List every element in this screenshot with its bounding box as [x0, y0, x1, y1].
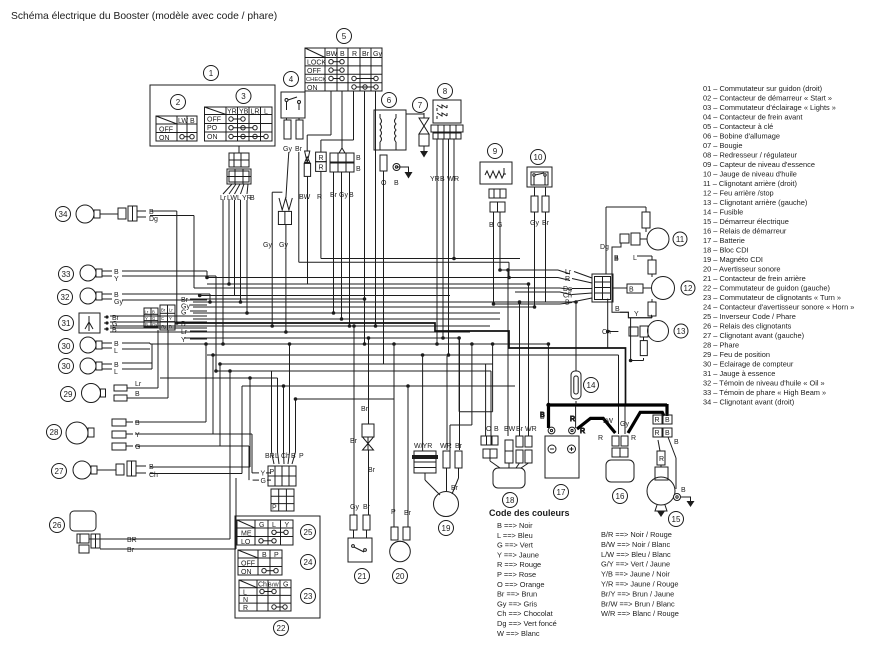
svg-text:R: R	[655, 430, 660, 437]
high beam indicator 33	[59, 265, 120, 283]
svg-text:Ch: Ch	[281, 453, 290, 460]
svg-text:Br: Br	[368, 467, 376, 474]
svg-text:30: 30	[62, 342, 71, 351]
key switch 4	[281, 72, 305, 154]
svg-text:Y: Y	[169, 316, 172, 321]
svg-text:B: B	[356, 166, 361, 173]
svg-text:ON: ON	[241, 569, 252, 576]
svg-text:OFF: OFF	[159, 127, 173, 134]
svg-text:R: R	[319, 165, 324, 172]
svg-text:34 – Clignotant avant (droit): 34 – Clignotant avant (droit)	[703, 398, 794, 407]
svg-text:B: B	[665, 417, 670, 424]
fuel sensor 9	[480, 144, 512, 230]
left switch unit box 22	[235, 516, 320, 636]
svg-text:31 – Jauge à essence: 31 – Jauge à essence	[703, 369, 775, 378]
svg-text:R: R	[454, 176, 459, 183]
svg-text:G: G	[283, 582, 288, 589]
svg-text:Y: Y	[285, 522, 290, 529]
svg-text:YR: YR	[227, 109, 237, 116]
resistor element (city light)	[263, 198, 292, 249]
svg-text:B: B	[615, 306, 620, 313]
svg-text:B: B	[145, 322, 148, 327]
svg-text:5: 5	[342, 32, 347, 41]
meter light 30b	[59, 358, 120, 376]
svg-text:33: 33	[62, 270, 71, 279]
svg-text:2: 2	[176, 98, 181, 107]
svg-text:CHECK: CHECK	[306, 77, 326, 83]
svg-text:B: B	[494, 426, 499, 433]
fuel gauge 31	[59, 313, 120, 334]
svg-text:Br: Br	[361, 406, 369, 413]
svg-text:P: P	[274, 552, 279, 559]
flasher relay 26	[50, 511, 137, 554]
svg-text:WR: WR	[525, 426, 537, 433]
svg-text:P ==> Rose: P ==> Rose	[497, 570, 536, 579]
svg-text:16 – Relais de démarreur: 16 – Relais de démarreur	[703, 227, 787, 236]
svg-text:B: B	[356, 155, 361, 162]
svg-text:R: R	[659, 456, 664, 463]
svg-text:08 – Redresseur / régulateur: 08 – Redresseur / régulateur	[703, 151, 798, 160]
svg-text:33 – Témoin de phare « High Be: 33 – Témoin de phare « High Beam »	[703, 388, 826, 397]
svg-text:G ==> Vert: G ==> Vert	[497, 541, 533, 550]
svg-text:21: 21	[358, 572, 367, 581]
svg-text:R: R	[317, 194, 322, 201]
meter light 30	[59, 337, 120, 355]
svg-text:23 – Commutateur de clignotant: 23 – Commutateur de clignotants « Turn »	[703, 293, 841, 302]
svg-text:B ==> Noir: B ==> Noir	[497, 521, 533, 530]
svg-text:L: L	[243, 589, 247, 596]
front turn signal 27	[52, 461, 159, 479]
svg-text:Gy ==> Gris: Gy ==> Gris	[497, 599, 537, 608]
svg-text:4: 4	[289, 75, 294, 84]
svg-text:LOCK: LOCK	[307, 60, 326, 67]
svg-text:BW: BW	[504, 426, 516, 433]
svg-text:Lr: Lr	[135, 381, 142, 388]
svg-text:15 – Démarreur électrique: 15 – Démarreur électrique	[703, 217, 789, 226]
svg-text:Gy: Gy	[530, 220, 539, 227]
svg-text:10: 10	[534, 153, 543, 162]
starter motor 15	[647, 415, 695, 527]
svg-text:28 – Phare: 28 – Phare	[703, 341, 739, 350]
svg-text:9: 9	[493, 147, 498, 156]
svg-text:Y: Y	[135, 432, 140, 439]
svg-text:Y/B ==> Jaune / Noir: Y/B ==> Jaune / Noir	[601, 570, 670, 579]
svg-text:LW: LW	[603, 418, 613, 425]
svg-text:B/W ==> Noir / Blanc: B/W ==> Noir / Blanc	[601, 540, 671, 549]
svg-text:26: 26	[53, 521, 62, 530]
svg-text:L: L	[114, 369, 118, 376]
svg-text:ON: ON	[207, 134, 218, 141]
svg-text:B: B	[629, 287, 634, 294]
svg-text:B: B	[440, 176, 445, 183]
svg-text:Y: Y	[634, 311, 639, 318]
svg-text:B: B	[665, 430, 670, 437]
svg-text:B: B	[681, 487, 686, 494]
svg-text:Br/Y ==> Brun / Jaune: Br/Y ==> Brun / Jaune	[601, 589, 674, 598]
svg-text:Lr: Lr	[181, 329, 188, 336]
svg-text:R: R	[598, 435, 603, 442]
B B connector (near coil)	[330, 153, 361, 199]
svg-text:Dg: Dg	[600, 244, 609, 251]
svg-text:OFF: OFF	[207, 117, 221, 124]
svg-text:Gy: Gy	[283, 146, 292, 153]
svg-text:B: B	[114, 362, 119, 369]
svg-text:B: B	[674, 439, 679, 446]
dimmer table 25	[237, 520, 316, 546]
svg-text:01 – Commutateur sur guidon (d: 01 – Commutateur sur guidon (droit)	[703, 84, 822, 93]
svg-text:LR: LR	[251, 109, 260, 116]
svg-text:B: B	[149, 464, 154, 471]
svg-text:Br: Br	[350, 438, 358, 445]
turn switch table 23	[239, 580, 316, 612]
svg-text:29: 29	[64, 390, 73, 399]
svg-text:N: N	[243, 597, 248, 604]
spark plug 7	[413, 98, 430, 158]
svg-text:BR: BR	[265, 453, 275, 460]
svg-text:29 – Feu de position: 29 – Feu de position	[703, 350, 770, 359]
svg-text:G: G	[181, 310, 186, 317]
svg-text:Br ==> Brun: Br ==> Brun	[497, 590, 537, 599]
svg-text:20 – Avertisseur sonore: 20 – Avertisseur sonore	[703, 265, 781, 274]
fuse 14	[571, 371, 599, 399]
svg-text:02 – Contacteur de démarreur «: 02 – Contacteur de démarreur « Start »	[703, 94, 832, 103]
svg-text:13: 13	[677, 327, 686, 336]
svg-text:YR: YR	[430, 176, 440, 183]
tail/stop light 12	[620, 255, 695, 318]
magneto 19	[412, 443, 463, 536]
svg-text:19 – Magnéto CDI: 19 – Magnéto CDI	[703, 255, 763, 264]
svg-text:Gy: Gy	[620, 421, 629, 428]
svg-text:Ch: Ch	[563, 293, 572, 300]
svg-text:14: 14	[587, 381, 596, 390]
svg-text:30 – Eclairage de compteur: 30 – Eclairage de compteur	[703, 360, 794, 369]
svg-text:03 – Commutateur d'éclairage «: 03 – Commutateur d'éclairage « Lights »	[703, 103, 836, 112]
svg-text:Br: Br	[516, 426, 524, 433]
svg-text:Ch: Ch	[258, 582, 267, 589]
svg-text:C: C	[161, 316, 164, 321]
svg-text:Lr: Lr	[169, 308, 173, 313]
svg-text:10 – Jauge de niveau d'huile: 10 – Jauge de niveau d'huile	[703, 170, 797, 179]
svg-text:24 – Contacteur d'avertisseur: 24 – Contacteur d'avertisseur sonore « H…	[703, 303, 854, 312]
svg-text:Gy: Gy	[152, 322, 158, 327]
svg-text:Br: Br	[362, 51, 370, 58]
svg-text:PO: PO	[207, 125, 218, 132]
svg-text:B: B	[614, 256, 619, 263]
svg-text:Gy: Gy	[350, 504, 359, 511]
svg-text:R: R	[243, 605, 248, 612]
svg-text:22 – Commutateur de guidon (ga: 22 – Commutateur de guidon (gauche)	[703, 284, 830, 293]
svg-text:G: G	[135, 444, 140, 451]
oil gauge 10	[527, 150, 552, 228]
svg-text:Y: Y	[114, 276, 119, 283]
svg-text:Ch: Ch	[602, 329, 611, 336]
CDI unit 18	[481, 426, 537, 508]
switch table 2 (front brake)	[156, 95, 197, 143]
rectifier 8	[430, 84, 463, 184]
svg-text:O: O	[381, 180, 387, 187]
svg-text:W ==> Blanc: W ==> Blanc	[497, 629, 540, 638]
title	[11, 11, 277, 22]
wire junction dots	[175, 257, 632, 401]
svg-text:Gy: Gy	[373, 51, 382, 58]
svg-text:B: B	[565, 300, 570, 307]
svg-text:W: W	[447, 176, 454, 183]
svg-text:ON: ON	[307, 85, 318, 92]
svg-text:B: B	[152, 310, 155, 315]
svg-text:17 – Batterie: 17 – Batterie	[703, 236, 745, 245]
svg-text:W/YR: W/YR	[414, 443, 432, 450]
legend list	[703, 84, 854, 407]
svg-text:L/W ==> Bleu / Blanc: L/W ==> Bleu / Blanc	[601, 550, 671, 559]
svg-text:R: R	[319, 155, 324, 162]
svg-text:B: B	[349, 192, 354, 199]
svg-text:25 – Inverseur Code / Phare: 25 – Inverseur Code / Phare	[703, 312, 796, 321]
svg-text:Lr: Lr	[220, 195, 227, 202]
svg-text:B: B	[394, 180, 399, 187]
svg-text:LO: LO	[241, 539, 251, 546]
svg-text:B: B	[135, 420, 140, 427]
svg-text:18: 18	[506, 496, 515, 505]
svg-text:Gy: Gy	[339, 192, 348, 199]
svg-text:07 – Bougie: 07 – Bougie	[703, 141, 742, 150]
svg-text:LW: LW	[227, 195, 237, 202]
svg-text:B: B	[190, 118, 195, 125]
svg-text:32: 32	[61, 293, 70, 302]
svg-text:G: G	[259, 522, 264, 529]
battery 17	[540, 414, 579, 500]
svg-text:25: 25	[304, 528, 313, 537]
svg-text:Y/R ==> Jaune / Rouge: Y/R ==> Jaune / Rouge	[601, 580, 678, 589]
svg-text:R: R	[655, 417, 660, 424]
starter relay 16	[598, 418, 636, 504]
svg-text:L: L	[633, 255, 637, 262]
svg-text:05 – Contacteur à clé: 05 – Contacteur à clé	[703, 122, 773, 131]
svg-text:19: 19	[442, 524, 451, 533]
meter connector block	[144, 297, 190, 344]
svg-text:11: 11	[676, 235, 685, 244]
svg-text:7: 7	[418, 101, 423, 110]
position light 29	[61, 330, 169, 403]
svg-text:B: B	[489, 222, 494, 229]
svg-text:Gy: Gy	[279, 242, 288, 249]
svg-text:R: R	[580, 428, 585, 435]
svg-text:OFF: OFF	[307, 68, 321, 75]
svg-text:14 – Fusible: 14 – Fusible	[703, 208, 743, 217]
svg-text:G: G	[261, 478, 266, 485]
svg-text:Code des couleurs: Code des couleurs	[489, 508, 570, 518]
svg-text:L ==> Bleu: L ==> Bleu	[497, 531, 533, 540]
switch unit box 1	[150, 66, 275, 147]
svg-text:ME: ME	[241, 531, 252, 538]
svg-text:B: B	[149, 209, 154, 216]
svg-text:Gy: Gy	[114, 299, 123, 306]
front turn signal 34	[56, 205, 159, 223]
svg-text:22: 22	[277, 624, 286, 633]
svg-text:06 – Bobine d'allumage: 06 – Bobine d'allumage	[703, 132, 780, 141]
svg-text:L: L	[272, 522, 276, 529]
svg-text:B: B	[112, 327, 117, 334]
svg-text:G: G	[152, 316, 155, 321]
svg-text:B/R ==> Noir / Rouge: B/R ==> Noir / Rouge	[601, 530, 672, 539]
svg-text:8: 8	[443, 87, 448, 96]
oil indicator 32	[58, 288, 124, 306]
svg-text:Br: Br	[363, 504, 371, 511]
svg-text:B: B	[540, 414, 545, 421]
wire diagonal feeds	[272, 148, 573, 464]
svg-text:B: B	[169, 324, 172, 329]
svg-text:Br: Br	[127, 547, 135, 554]
svg-text:B: B	[114, 341, 119, 348]
svg-text:LW: LW	[178, 118, 188, 125]
brake light diode unit	[350, 406, 376, 474]
rear turn signal 11	[600, 207, 687, 262]
svg-text:12: 12	[684, 284, 693, 293]
wire battery/relay links	[540, 401, 661, 467]
wire vertical drops	[150, 91, 644, 549]
svg-text:L: L	[275, 453, 279, 460]
svg-text:R: R	[565, 276, 570, 283]
horn 20	[390, 509, 412, 584]
svg-text:B: B	[114, 292, 119, 299]
svg-text:34: 34	[59, 210, 68, 219]
svg-text:30: 30	[62, 362, 71, 371]
svg-text:BW: BW	[326, 51, 338, 58]
rear turn signal 13	[602, 321, 688, 356]
svg-text:3: 3	[241, 92, 246, 101]
svg-text:17: 17	[557, 488, 566, 497]
svg-text:Y: Y	[181, 337, 186, 344]
svg-text:R: R	[631, 435, 636, 442]
svg-text:11 – Clignotant arrière (droit: 11 – Clignotant arrière (droit)	[703, 179, 797, 188]
svg-text:Br: Br	[161, 308, 166, 313]
svg-text:BR: BR	[127, 537, 137, 544]
svg-text:Y: Y	[261, 471, 266, 478]
svg-text:B: B	[135, 391, 140, 398]
svg-text:31: 31	[62, 319, 71, 328]
svg-text:W/R ==> Blanc / Rouge: W/R ==> Blanc / Rouge	[601, 609, 679, 618]
svg-text:Y ==> Jaune: Y ==> Jaune	[497, 550, 539, 559]
svg-text:09 – Capteur de niveau d'essen: 09 – Capteur de niveau d'essence	[703, 160, 815, 169]
headlight 28	[47, 419, 141, 451]
switch table 3 (lights)	[205, 89, 273, 142]
svg-text:12 – Feu arrière /stop: 12 – Feu arrière /stop	[703, 189, 774, 198]
svg-text:04 – Contacteur de frein avant: 04 – Contacteur de frein avant	[703, 113, 802, 122]
B bracket wire for 11/12	[612, 243, 652, 318]
svg-text:R: R	[352, 51, 357, 58]
svg-text:Br: Br	[404, 510, 412, 517]
svg-text:B: B	[181, 321, 186, 328]
svg-text:Ch ==> Chocolat: Ch ==> Chocolat	[497, 609, 553, 618]
svg-text:Dg: Dg	[149, 216, 158, 223]
svg-text:Gy: Gy	[263, 242, 272, 249]
svg-text:27 – Clignotant avant (gauche): 27 – Clignotant avant (gauche)	[703, 331, 804, 340]
svg-text:13 – Clignotant arrière (gauch: 13 – Clignotant arrière (gauche)	[703, 198, 807, 207]
wire bus horizontal runs	[100, 114, 644, 549]
svg-text:6: 6	[387, 96, 392, 105]
handlebar connector below box 1	[220, 146, 255, 202]
svg-text:Br: Br	[455, 443, 463, 450]
svg-text:BrW: BrW	[268, 583, 280, 589]
ignition coil 6	[374, 93, 413, 188]
R R connector pair	[316, 152, 327, 201]
svg-text:1: 1	[209, 69, 214, 78]
svg-text:O ==> Orange: O ==> Orange	[497, 580, 544, 589]
svg-text:B: B	[291, 453, 296, 460]
fuse connector below table 5	[299, 151, 311, 201]
svg-text:ON: ON	[159, 135, 170, 142]
svg-text:Br/W ==> Brun / Blanc: Br/W ==> Brun / Blanc	[601, 599, 675, 608]
svg-text:R ==> Rouge: R ==> Rouge	[497, 560, 541, 569]
svg-text:L: L	[264, 109, 268, 116]
rear brake switch 21	[348, 504, 372, 584]
svg-text:Gy: Gy	[161, 324, 167, 329]
svg-text:23: 23	[304, 592, 313, 601]
svg-text:27: 27	[55, 467, 64, 476]
svg-text:21 – Contacteur de frein arriè: 21 – Contacteur de frein arrière	[703, 274, 806, 283]
svg-text:P: P	[299, 453, 304, 460]
svg-text:G/Y ==> Vert / Jaune: G/Y ==> Vert / Jaune	[601, 560, 670, 569]
svg-text:16: 16	[616, 492, 625, 501]
svg-text:B: B	[262, 552, 267, 559]
svg-text:R: R	[570, 416, 575, 423]
svg-text:O: O	[486, 426, 492, 433]
svg-text:L: L	[114, 348, 118, 355]
svg-text:18 – Bloc CDI: 18 – Bloc CDI	[703, 246, 749, 255]
svg-text:B: B	[250, 195, 255, 202]
svg-text:32 – Témoin de niveau d'huile: 32 – Témoin de niveau d'huile « Oil »	[703, 379, 825, 388]
svg-text:Br: Br	[542, 220, 550, 227]
svg-text:P: P	[391, 509, 396, 516]
svg-text:YB: YB	[239, 109, 249, 116]
svg-text:B: B	[340, 51, 345, 58]
svg-text:P: P	[272, 505, 277, 512]
battery cable (thick)	[546, 403, 667, 433]
svg-text:L: L	[237, 195, 241, 202]
svg-text:Lr: Lr	[565, 269, 572, 276]
svg-text:Dg ==> Vert foncé: Dg ==> Vert foncé	[497, 619, 557, 628]
svg-text:Y: Y	[145, 316, 148, 321]
svg-text:Br: Br	[295, 146, 303, 153]
svg-text:Ch: Ch	[149, 472, 158, 479]
svg-text:BW: BW	[299, 194, 311, 201]
svg-text:15: 15	[672, 515, 681, 524]
svg-text:26 – Relais des clignotants: 26 – Relais des clignotants	[703, 322, 792, 331]
svg-text:Br: Br	[330, 192, 338, 199]
svg-text:28: 28	[50, 428, 59, 437]
horn switch table 24	[238, 550, 316, 576]
svg-text:OFF: OFF	[241, 561, 255, 568]
svg-text:Schéma électrique du Booster (: Schéma électrique du Booster (modèle ave…	[11, 11, 277, 22]
svg-text:20: 20	[396, 572, 405, 581]
color code table	[489, 508, 679, 638]
svg-text:WR: WR	[440, 443, 452, 450]
key switch table 5	[305, 29, 382, 93]
svg-text:24: 24	[304, 558, 313, 567]
left handlebar connector	[252, 453, 304, 512]
svg-text:Lr: Lr	[145, 310, 149, 315]
svg-text:B: B	[114, 269, 119, 276]
svg-text:G: G	[497, 222, 502, 229]
tail connector	[563, 269, 627, 307]
ground bus wire B (bold)	[177, 323, 626, 405]
